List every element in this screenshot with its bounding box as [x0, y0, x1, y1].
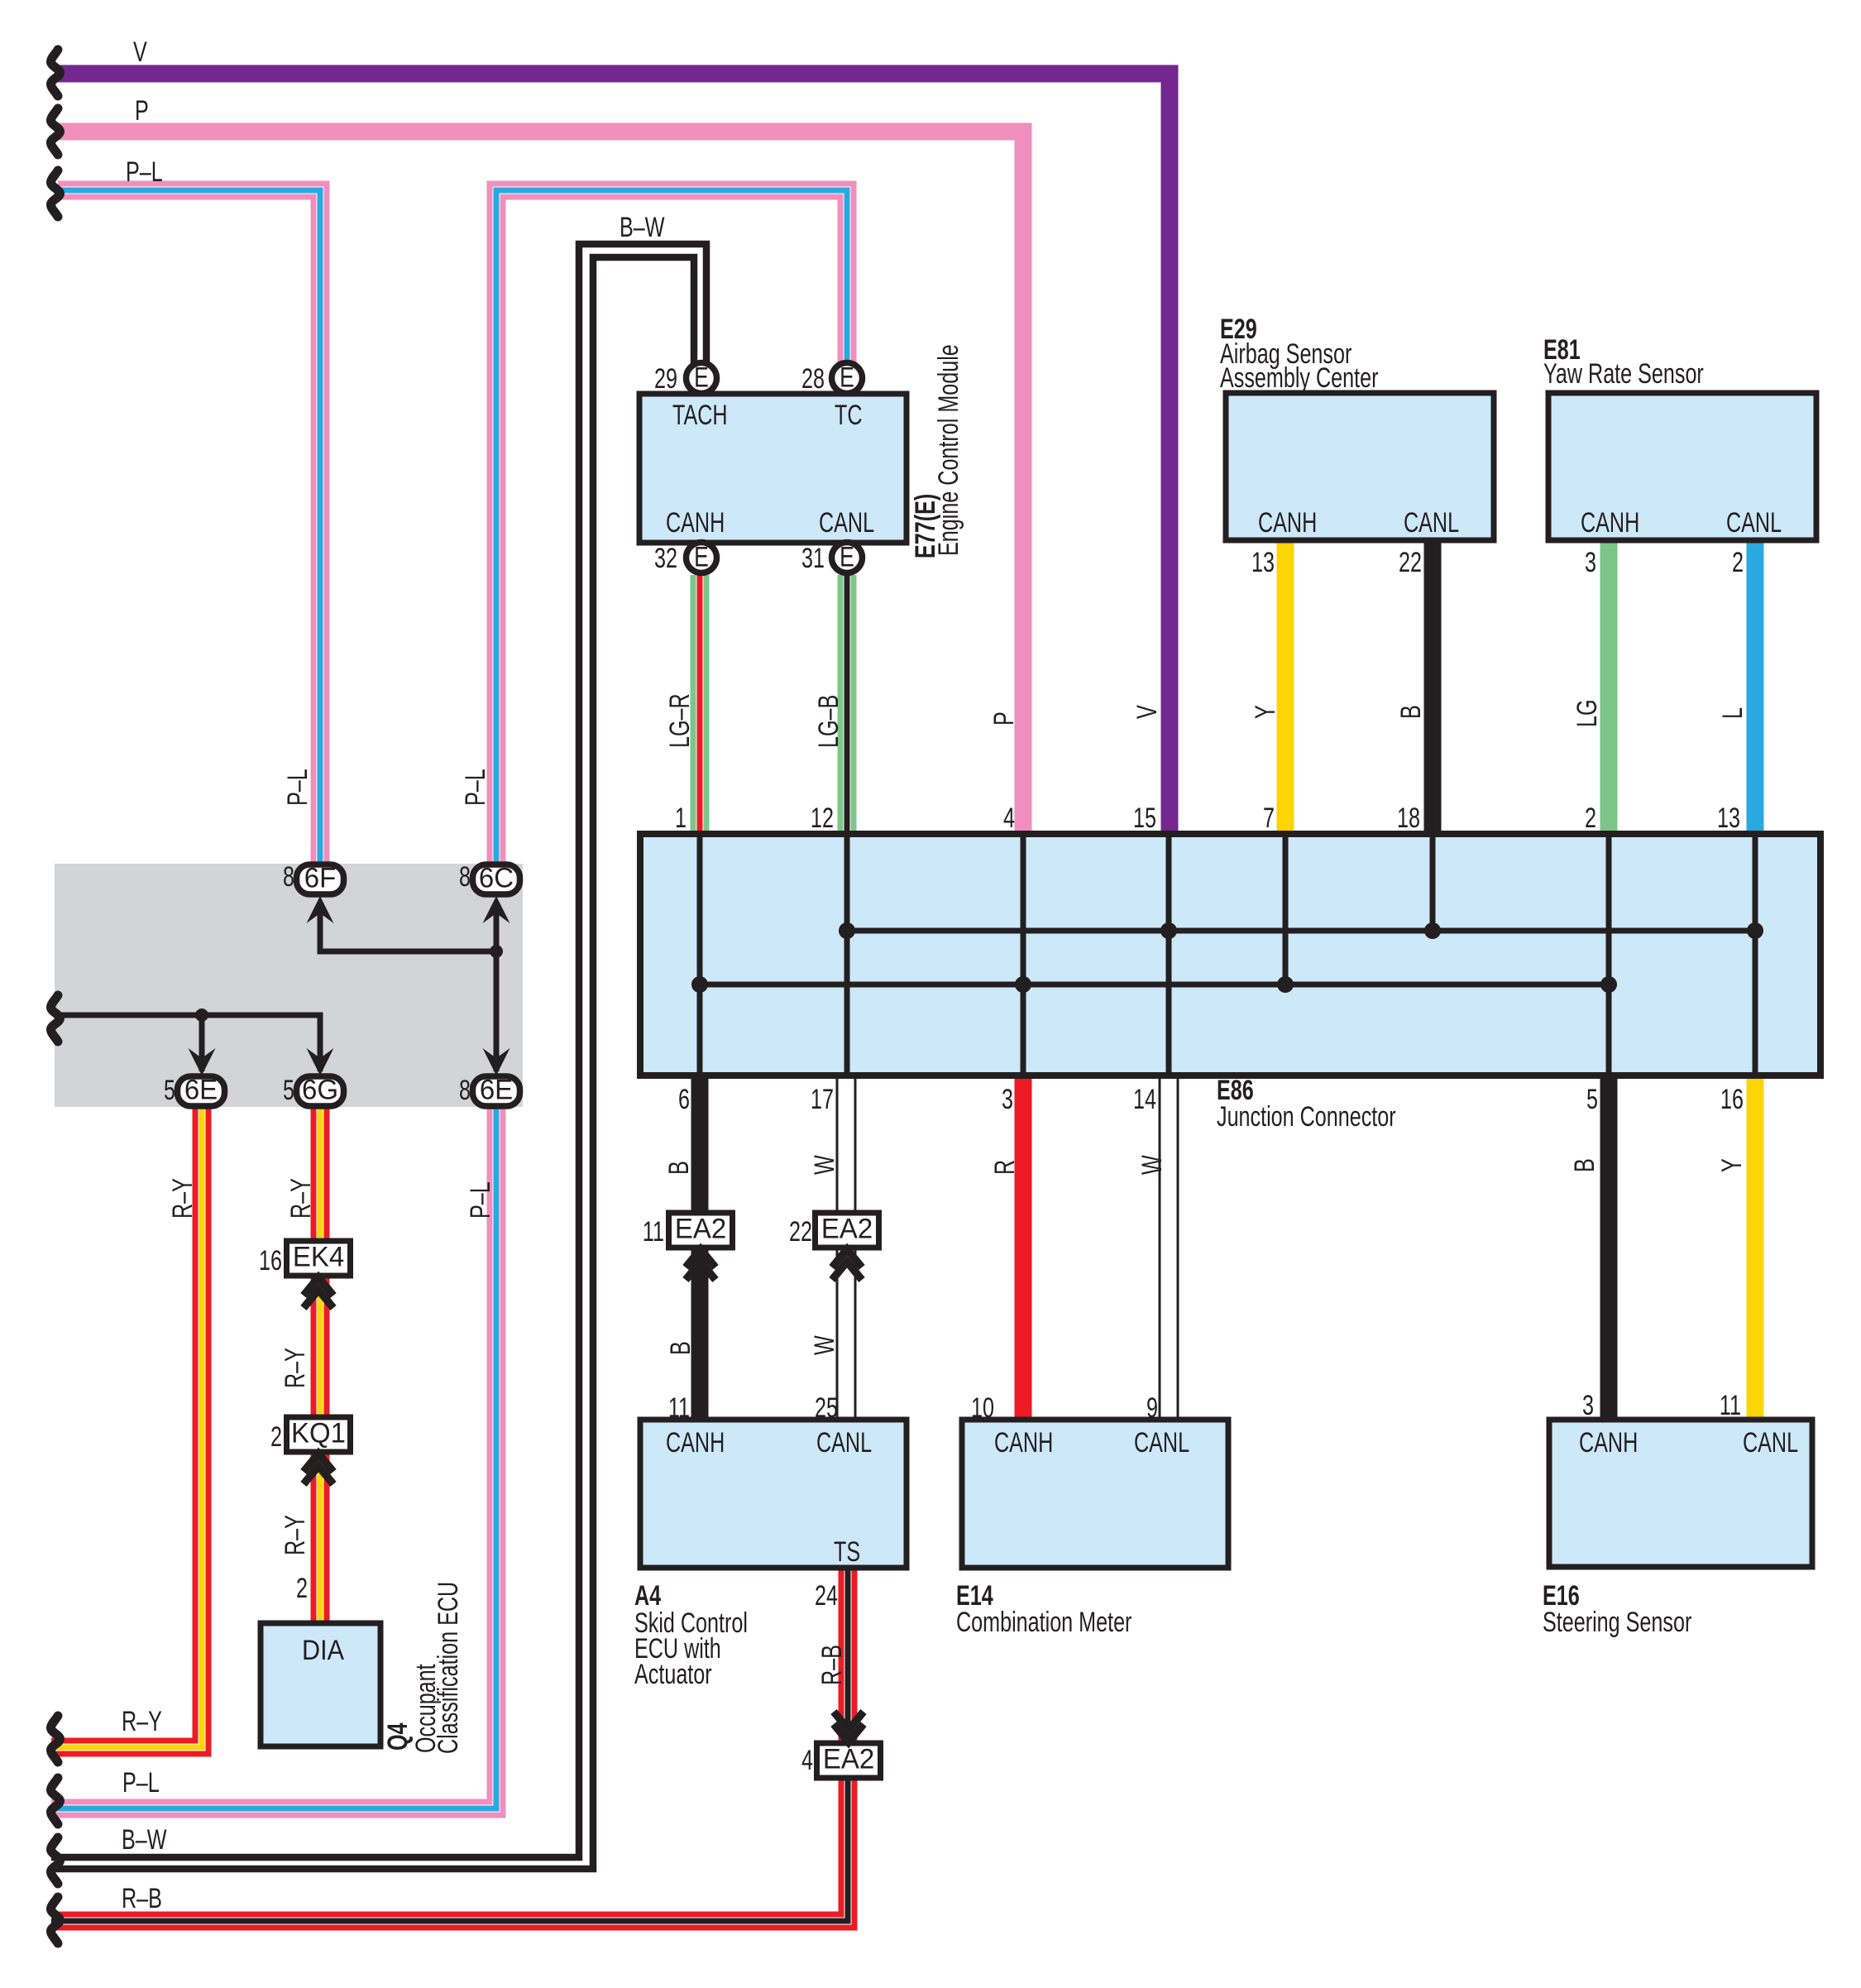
svg-text:KQ1: KQ1 [291, 1418, 346, 1449]
svg-text:B–W: B–W [620, 212, 665, 243]
svg-text:P: P [988, 711, 1020, 726]
svg-text:CANL: CANL [1726, 507, 1782, 539]
svg-text:2: 2 [296, 1573, 308, 1604]
svg-text:EA2: EA2 [821, 1214, 873, 1245]
svg-text:CANL: CANL [816, 1427, 872, 1459]
svg-text:Steering Sensor: Steering Sensor [1543, 1607, 1691, 1638]
svg-text:Y: Y [1250, 705, 1281, 719]
svg-text:14: 14 [1133, 1084, 1156, 1115]
svg-text:13: 13 [1717, 802, 1740, 834]
svg-text:24: 24 [815, 1580, 838, 1612]
svg-text:LG–R: LG–R [664, 693, 696, 748]
svg-text:16: 16 [1720, 1084, 1744, 1115]
svg-text:3: 3 [1582, 1390, 1594, 1421]
svg-text:CANH: CANH [1258, 507, 1317, 539]
svg-text:28: 28 [801, 363, 825, 395]
svg-text:4: 4 [801, 1745, 813, 1776]
svg-text:16: 16 [259, 1245, 282, 1277]
svg-text:4: 4 [1003, 802, 1015, 834]
svg-text:25: 25 [815, 1392, 838, 1424]
svg-text:EK4: EK4 [293, 1242, 344, 1273]
svg-text:29: 29 [654, 363, 677, 395]
svg-text:3: 3 [1002, 1084, 1013, 1115]
svg-text:8: 8 [459, 1075, 471, 1106]
svg-text:CANL: CANL [819, 507, 874, 539]
svg-text:12: 12 [811, 802, 834, 834]
svg-text:R–B: R–B [816, 1645, 848, 1685]
svg-text:W: W [809, 1335, 840, 1355]
svg-text:Yaw Rate Sensor: Yaw Rate Sensor [1543, 358, 1704, 390]
svg-text:CANH: CANH [666, 1427, 725, 1459]
svg-text:CANL: CANL [1404, 507, 1459, 539]
svg-text:6E: 6E [480, 1075, 513, 1106]
svg-text:6G: 6G [302, 1075, 338, 1106]
svg-text:CANL: CANL [1743, 1427, 1798, 1459]
svg-text:5: 5 [1586, 1084, 1598, 1115]
svg-text:P–L: P–L [465, 1181, 496, 1219]
svg-text:DIA: DIA [302, 1635, 344, 1666]
svg-text:Combination Meter: Combination Meter [956, 1607, 1131, 1638]
svg-text:V: V [133, 36, 147, 68]
svg-text:Engine Control Module: Engine Control Module [933, 344, 964, 556]
svg-text:B: B [1569, 1158, 1600, 1172]
svg-text:R–Y: R–Y [280, 1515, 311, 1555]
svg-text:P–L: P–L [122, 1767, 160, 1799]
svg-text:2: 2 [1585, 802, 1596, 834]
svg-text:2: 2 [1732, 547, 1744, 578]
svg-text:3: 3 [1585, 547, 1596, 578]
svg-text:TC: TC [835, 400, 863, 431]
svg-text:CANH: CANH [1579, 1427, 1638, 1459]
svg-text:B: B [663, 1161, 695, 1175]
svg-text:CANH: CANH [994, 1427, 1053, 1459]
svg-text:P–L: P–L [460, 769, 491, 806]
svg-text:A4: A4 [634, 1580, 661, 1612]
svg-text:CANH: CANH [666, 507, 725, 539]
svg-text:R–Y: R–Y [280, 1348, 311, 1388]
svg-text:B–W: B–W [122, 1824, 167, 1856]
svg-text:Junction Connector: Junction Connector [1217, 1101, 1396, 1133]
svg-text:R–B: R–B [122, 1883, 162, 1914]
svg-text:CANL: CANL [1134, 1427, 1189, 1459]
svg-text:W: W [809, 1155, 840, 1175]
svg-text:Assembly Center: Assembly Center [1220, 362, 1378, 394]
svg-text:6C: 6C [479, 863, 514, 894]
svg-text:P–L: P–L [282, 769, 313, 806]
svg-text:P–L: P–L [126, 156, 163, 188]
svg-text:8: 8 [459, 861, 471, 893]
svg-text:LG–B: LG–B [813, 695, 844, 748]
svg-text:TS: TS [834, 1536, 860, 1568]
svg-text:Actuator: Actuator [634, 1659, 712, 1690]
svg-text:EA2: EA2 [675, 1214, 726, 1245]
svg-text:18: 18 [1397, 802, 1420, 834]
svg-text:W: W [1136, 1155, 1168, 1175]
svg-text:TACH: TACH [672, 400, 728, 431]
svg-text:6: 6 [678, 1084, 690, 1115]
svg-text:22: 22 [789, 1216, 812, 1248]
svg-text:22: 22 [1399, 547, 1422, 578]
svg-text:E: E [694, 362, 709, 393]
svg-text:7: 7 [1263, 802, 1275, 834]
svg-text:V: V [1131, 705, 1163, 719]
svg-text:5: 5 [164, 1075, 175, 1106]
svg-text:13: 13 [1251, 547, 1275, 578]
svg-text:P: P [135, 95, 149, 127]
svg-text:R: R [989, 1160, 1021, 1175]
svg-text:17: 17 [811, 1084, 834, 1115]
svg-text:15: 15 [1133, 802, 1156, 834]
svg-text:6E: 6E [184, 1075, 218, 1106]
svg-text:L: L [1717, 707, 1749, 719]
svg-text:10: 10 [971, 1392, 994, 1424]
svg-text:EA2: EA2 [823, 1744, 874, 1775]
svg-text:Q4: Q4 [382, 1722, 414, 1751]
svg-text:9: 9 [1146, 1392, 1158, 1424]
svg-text:Classification ECU: Classification ECU [433, 1582, 464, 1754]
svg-text:1: 1 [675, 802, 687, 834]
svg-text:B: B [665, 1341, 696, 1355]
svg-text:11: 11 [668, 1392, 690, 1424]
svg-text:32: 32 [654, 543, 677, 574]
svg-text:31: 31 [801, 543, 825, 574]
svg-text:R–Y: R–Y [167, 1178, 199, 1219]
svg-text:LG: LG [1572, 699, 1603, 727]
svg-text:5: 5 [283, 1075, 294, 1106]
svg-text:E: E [840, 541, 854, 572]
svg-text:E: E [840, 362, 854, 393]
svg-text:CANH: CANH [1581, 507, 1639, 539]
svg-text:Y: Y [1716, 1158, 1748, 1172]
svg-text:6F: 6F [304, 863, 336, 894]
svg-text:8: 8 [283, 861, 294, 893]
svg-text:2: 2 [270, 1421, 282, 1453]
svg-text:11: 11 [1720, 1390, 1741, 1421]
svg-text:R–Y: R–Y [285, 1178, 317, 1219]
svg-text:11: 11 [643, 1216, 664, 1248]
svg-text:B: B [1395, 705, 1427, 719]
svg-text:E: E [694, 541, 709, 572]
svg-text:R–Y: R–Y [122, 1706, 162, 1737]
